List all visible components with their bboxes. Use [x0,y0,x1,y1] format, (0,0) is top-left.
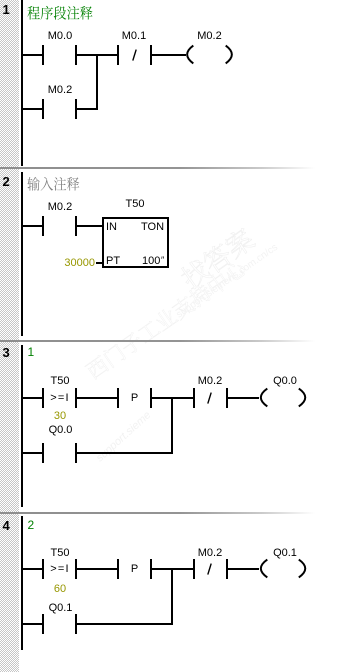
left power rail network 3 [21,345,23,507]
label M0.0 [48,31,72,42]
NC contact M0.2 [193,559,195,579]
label T50 (timer) [126,199,145,210]
wire [23,108,42,110]
junction branch [96,54,98,110]
network 2 number [3,175,10,188]
coil Q0.1 [257,557,309,581]
compare contact T50 >=I [42,388,44,408]
label T50 [51,376,70,387]
junction branch [171,568,173,625]
network number column (dithered) [0,0,19,672]
network 1 title comment [27,5,95,24]
network 4 title comment [28,520,35,531]
wire [77,54,117,56]
coil M0.2 [184,43,236,67]
network 3 title comment [28,347,35,358]
NC contact M0.1 [117,45,119,65]
label M0.2 [48,202,72,213]
wire [77,568,117,570]
label Q0.1 coil [273,548,297,559]
coil Q0.0 [257,386,309,410]
label Q0.0 coil [273,376,297,387]
wire [77,623,173,625]
wire [23,397,42,399]
PT input tick [96,262,102,264]
wire [23,225,42,227]
wire [77,225,102,227]
wire [152,397,193,399]
compare value 30 [54,411,66,422]
wire [23,568,42,570]
wire [23,452,42,454]
left power rail network 4 [21,516,23,650]
wire [228,568,259,570]
network 3 number [3,346,10,359]
label M0.2 coil [197,31,221,42]
box type TON [141,222,164,233]
pin label PT [106,256,120,267]
network 2 title comment [27,176,81,195]
wire [77,452,173,454]
contact Q0.0 [42,443,44,463]
left power rail network 1 [21,0,23,166]
contact M0.2 [42,99,44,119]
wire [77,397,117,399]
label M0.2 [198,548,222,559]
wire [23,54,42,56]
svg-text:support.sieme: support.sieme [94,409,153,464]
contact M0.2 [42,216,44,236]
timer box T50 TON [102,217,169,268]
PT value 30000 [64,258,95,269]
junction branch [171,397,173,454]
left power rail network 2 [21,172,23,336]
label T50 [51,548,70,559]
separator 3 [0,512,346,514]
network 1 number [3,3,10,16]
contact M0.0 [42,45,44,65]
label Q0.1 (parallel contact) [49,603,73,614]
wire [77,108,98,110]
separator 2 [0,340,346,342]
pin label IN [106,222,117,233]
NC contact M0.2 [193,388,195,408]
time base 100 ms [142,256,160,267]
network 4 number [3,519,10,532]
separator 1 [0,167,346,169]
wire [152,54,186,56]
wire [228,397,259,399]
edge contact P [117,559,119,579]
edge contact P [117,388,119,408]
label M0.2 [198,376,222,387]
contact Q0.1 [42,614,44,634]
compare contact T50 >=I [42,559,44,579]
compare value 60 [54,584,66,595]
wire [23,623,42,625]
label M0.2 (parallel contact) [48,85,72,96]
label M0.1 [122,31,146,42]
label Q0.0 (parallel contact) [49,425,73,436]
wire [152,568,193,570]
